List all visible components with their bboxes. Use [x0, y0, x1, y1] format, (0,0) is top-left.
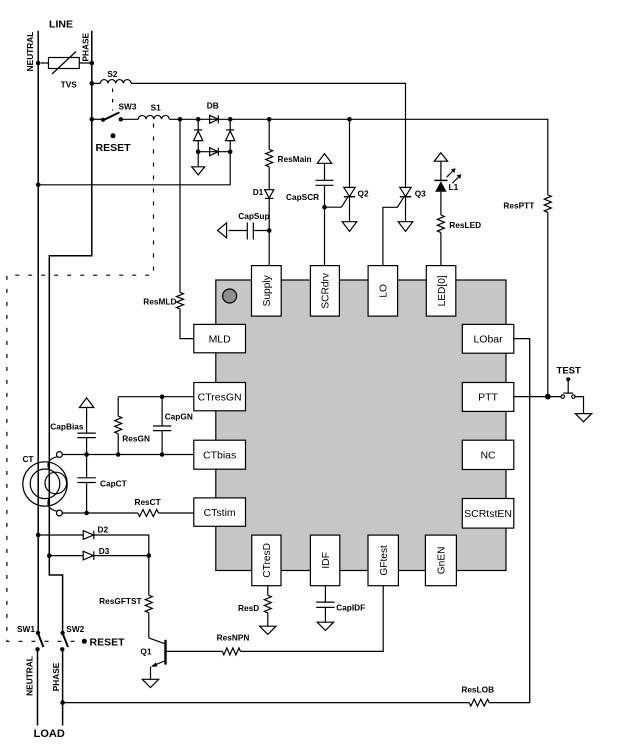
svg-text:S1: S1: [151, 103, 162, 113]
svg-text:GFtest: GFtest: [379, 545, 390, 576]
svg-text:ResMain: ResMain: [278, 154, 312, 164]
svg-text:SW2: SW2: [66, 624, 84, 634]
pin IDF (bottom): [310, 535, 339, 586]
wire ResGFTST branch: [148, 556, 150, 638]
wire LObar net down right side: [489, 339, 530, 703]
resistor ResLOB: [469, 699, 489, 706]
svg-text:GnEN: GnEN: [437, 547, 448, 575]
svg-text:SCRdrv: SCRdrv: [321, 272, 332, 309]
resistor ResCT: [138, 510, 159, 517]
diode D3: [83, 551, 94, 560]
svg-text:RESET: RESET: [96, 142, 132, 154]
svg-text:ResPTT: ResPTT: [503, 200, 534, 210]
pin SCRdrv (top): [310, 266, 339, 317]
wire phase line from LINE through SW3 with jogs down to SW2: [49, 31, 92, 633]
diode DB bottom (horizontal): [210, 148, 219, 156]
svg-text:L1: L1: [449, 182, 459, 192]
ground below bridge: [192, 167, 205, 175]
resistor ResNPN: [222, 648, 240, 655]
capacitor CapBias: [86, 408, 88, 455]
svg-text:LO: LO: [379, 284, 390, 298]
wire neutral to bridge DB: [38, 152, 230, 185]
svg-text:LED[0]: LED[0]: [437, 275, 448, 306]
wire top rail from SW3/S1 to right side: [121, 119, 548, 195]
RESET indicator dot (top): [111, 133, 116, 138]
resistor ResGN: [117, 397, 119, 455]
wire D2 net: [38, 535, 149, 556]
svg-text:CT: CT: [22, 454, 33, 464]
wire D3 net: [49, 555, 149, 557]
wire Q3 gate to LO pin: [383, 198, 404, 266]
IC body U1: [216, 280, 506, 571]
svg-text:ResNPN: ResNPN: [217, 632, 250, 642]
resistor ResD: [264, 595, 271, 613]
wire L1 branch: [440, 161, 442, 265]
pin CTstim (left): [194, 498, 246, 526]
svg-text:NC: NC: [480, 450, 496, 462]
pin CTresD (bottom): [252, 535, 281, 586]
svg-text:CTstim: CTstim: [204, 507, 236, 519]
transistor Q1 (NPN): [149, 638, 166, 679]
svg-text:LOAD: LOAD: [34, 728, 65, 740]
switch SW1: [38, 633, 43, 647]
current transformer CT: [23, 452, 67, 516]
wire Q2 gate: [325, 198, 348, 208]
resistor ResMain: [266, 149, 273, 167]
pin NC (right): [462, 440, 514, 469]
capacitor CapIDF: [316, 602, 334, 607]
svg-text:NEUTRAL: NEUTRAL: [25, 32, 35, 72]
connector arrow above L1: [434, 153, 447, 162]
svg-text:ResGN: ResGN: [122, 434, 150, 444]
svg-text:CapCT: CapCT: [100, 478, 127, 488]
pin CTresGN (left): [194, 383, 246, 411]
pin MLD (left): [194, 324, 246, 352]
connector arrow above CapSCR: [317, 154, 331, 164]
diode DB right (vertical, pointing up): [226, 130, 235, 141]
svg-text:TVS: TVS: [61, 80, 78, 90]
svg-text:Supply: Supply: [262, 274, 273, 306]
svg-text:Q2: Q2: [358, 189, 369, 199]
svg-text:LINE: LINE: [49, 18, 73, 30]
svg-text:CapGN: CapGN: [165, 411, 193, 421]
wire ResPTT lower segment to PTT node: [547, 212, 549, 396]
inductor S1 (solenoid coil): [138, 115, 169, 119]
svg-text:SW1: SW1: [17, 624, 35, 634]
svg-text:MLD: MLD: [209, 333, 232, 345]
pin LED[0] (top): [426, 266, 456, 317]
wire ResD branch: [267, 586, 269, 627]
diode DB top (horizontal): [210, 115, 219, 123]
connector arrow left of CapSup: [218, 223, 227, 238]
ground below Q1 emitter: [142, 679, 158, 687]
svg-text:LObar: LObar: [473, 334, 503, 346]
svg-text:PHASE: PHASE: [81, 32, 91, 61]
resistor ResPTT: [544, 195, 551, 213]
resistor ResGFTST: [145, 595, 152, 613]
switch SW3: [92, 118, 103, 120]
wire CapSCR branch: [324, 163, 326, 265]
svg-text:NEUTRAL: NEUTRAL: [24, 656, 34, 696]
pin PTT (right): [462, 383, 514, 412]
pin CTbias (left): [194, 440, 246, 469]
connector arrow above CapBias: [79, 398, 93, 408]
RESET indicator dot (bottom): [82, 639, 87, 644]
svg-text:RESET: RESET: [90, 636, 126, 648]
wire PTT net: [514, 396, 561, 398]
inductor S2 (solenoid coil): [100, 80, 131, 84]
pin LObar (right): [462, 324, 514, 353]
wire CTstim row: [62, 512, 194, 514]
switch TEST (pushbutton): [561, 377, 575, 398]
capacitor CapSup: [229, 223, 270, 240]
svg-text:CTresD: CTresD: [262, 543, 273, 578]
LED L1: [434, 180, 447, 191]
svg-text:TEST: TEST: [557, 366, 581, 377]
svg-text:IDF: IDF: [321, 552, 332, 568]
SCR Q3: [400, 187, 411, 221]
svg-text:Q1: Q1: [140, 647, 151, 657]
pin LO (top): [368, 266, 398, 317]
pin SCRtstEN (right): [462, 499, 514, 529]
svg-text:PHASE: PHASE: [51, 662, 61, 691]
svg-text:Q3: Q3: [415, 189, 426, 199]
svg-text:D3: D3: [99, 546, 110, 556]
capacitor CapGN: [161, 397, 163, 455]
svg-text:ResMLD: ResMLD: [143, 297, 176, 307]
wire ResMain branch: [268, 119, 270, 265]
connector arrow below Q2: [342, 222, 357, 232]
svg-text:ResCT: ResCT: [134, 497, 160, 507]
pin-1 indicator dot: [223, 289, 237, 303]
dashed link S1 to latch box and to SW1/SW2: [7, 124, 154, 642]
varistor TVS: [41, 52, 92, 75]
wire ResMLD branch: [180, 119, 194, 338]
pin GFtest (bottom): [368, 535, 398, 586]
capacitor CapCT: [86, 455, 88, 514]
wire CapIDF branch: [324, 586, 326, 623]
wire Q1 base to ResNPN to GFtest: [167, 586, 384, 652]
ground below ResD: [260, 626, 276, 634]
svg-text:D1: D1: [253, 187, 264, 197]
wire neutral line from LINE to SW1: [37, 31, 39, 633]
resistor ResMLD: [177, 292, 184, 309]
LED L1 emission arrows: [447, 168, 462, 183]
svg-text:CTresGN: CTresGN: [198, 391, 242, 403]
node PTT/TEST junction: [545, 394, 551, 400]
svg-text:ResLOB: ResLOB: [461, 684, 494, 694]
svg-text:CapSCR: CapSCR: [286, 192, 319, 202]
wire phase below SW2 to LOAD: [62, 649, 64, 725]
wire bottom rail to phase: [63, 702, 470, 704]
svg-text:SCRtstEN: SCRtstEN: [464, 508, 512, 520]
svg-text:CapIDF: CapIDF: [336, 603, 365, 613]
connector arrow below Q3: [398, 222, 413, 232]
ground below CapIDF: [317, 622, 333, 630]
capacitor CapSCR: [316, 180, 334, 185]
resistor ResLED: [437, 215, 444, 233]
svg-text:CapSup: CapSup: [238, 211, 269, 221]
wire S2 branch to Q3 anode: [92, 83, 406, 187]
diode DB left (vertical, pointing up): [194, 130, 203, 141]
wire neutral below SW1 to LOAD: [37, 649, 39, 725]
ground at TEST: [575, 414, 591, 422]
wire CTresGN row: [118, 396, 194, 398]
wire CTbias row: [62, 454, 194, 456]
svg-text:CapBias: CapBias: [50, 421, 84, 431]
svg-text:ResGFTST: ResGFTST: [99, 596, 141, 606]
pin Supply (top): [252, 266, 282, 317]
svg-text:D2: D2: [98, 524, 109, 534]
dashed link S2 to SW3: [112, 89, 114, 111]
svg-text:PTT: PTT: [478, 392, 498, 404]
svg-text:S2: S2: [107, 69, 118, 79]
switch SW2: [63, 633, 68, 647]
svg-text:SW3: SW3: [119, 102, 137, 112]
svg-text:ResD: ResD: [238, 603, 259, 613]
diode D2: [83, 531, 94, 540]
diode D1 (pointing down): [265, 190, 274, 199]
svg-text:CTbias: CTbias: [203, 449, 236, 461]
wire TEST to ground: [575, 397, 583, 414]
SCR Q2: [344, 119, 355, 221]
diode bridge DB outline wires: [198, 119, 230, 167]
svg-text:ResLED: ResLED: [449, 220, 481, 230]
svg-text:DB: DB: [207, 100, 219, 110]
pin GnEN (bottom): [425, 535, 456, 586]
